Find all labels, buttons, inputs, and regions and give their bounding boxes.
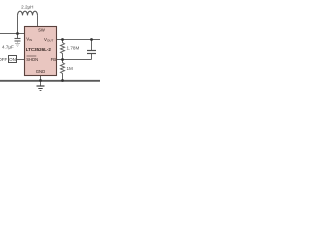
svg-text:1.78M: 1.78M bbox=[67, 46, 80, 51]
svg-text:GND: GND bbox=[36, 69, 46, 74]
svg-text:SHDN: SHDN bbox=[26, 57, 38, 62]
svg-text:4.7µF: 4.7µF bbox=[2, 45, 14, 50]
svg-text:2.2µH: 2.2µH bbox=[21, 4, 33, 9]
svg-text:ON: ON bbox=[9, 57, 16, 62]
svg-text:LTC3526L-2: LTC3526L-2 bbox=[26, 47, 52, 52]
svg-text:VOUT: VOUT bbox=[44, 37, 53, 43]
svg-text:SW: SW bbox=[38, 28, 45, 33]
svg-text:VIN: VIN bbox=[26, 36, 32, 42]
svg-text:OFF: OFF bbox=[0, 57, 7, 62]
svg-text:FB: FB bbox=[51, 57, 57, 62]
svg-text:1M: 1M bbox=[67, 66, 74, 71]
